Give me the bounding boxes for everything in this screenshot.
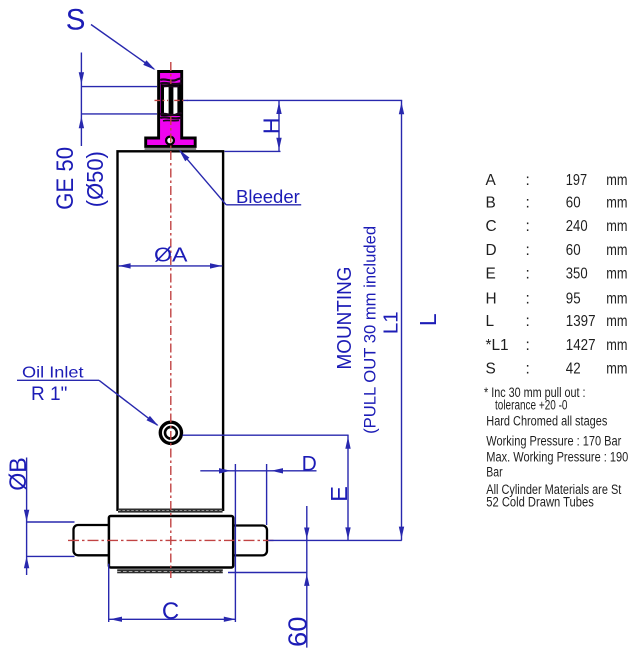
D dim line	[200, 470, 316, 472]
S dim line	[80, 53, 82, 147]
svg-text::: :	[526, 291, 530, 308]
cylinder tube body	[118, 151, 224, 510]
svg-text:S: S	[66, 4, 86, 37]
S ext line bottom	[81, 113, 157, 115]
svg-text:H: H	[258, 117, 284, 134]
hatch strip under flange	[145, 148, 197, 151]
blue labels	[5, 4, 441, 647]
E top ext line	[183, 434, 349, 436]
svg-text:H: H	[486, 291, 497, 308]
L1 dim arrows	[399, 102, 404, 114]
svg-text:mm: mm	[606, 361, 627, 378]
svg-text:E: E	[326, 486, 352, 502]
D/C shared ext line	[234, 464, 236, 622]
pin centerline ext to L1	[269, 539, 402, 541]
svg-text::: :	[526, 361, 530, 378]
svg-text:S: S	[486, 361, 496, 378]
svg-text:42: 42	[566, 361, 581, 378]
svg-text:mm: mm	[606, 291, 627, 308]
dia-B arrows	[24, 510, 29, 522]
gland strip at tube bottom	[118, 509, 223, 513]
svg-text:(Ø50): (Ø50)	[82, 151, 108, 207]
svg-text:mm: mm	[606, 313, 627, 330]
svg-text:1397: 1397	[566, 313, 596, 330]
svg-text::: :	[526, 337, 530, 354]
S leader arrowhead	[143, 60, 155, 70]
top wavy bearing band	[160, 79, 181, 81]
rod-end column + flange	[146, 72, 196, 147]
svg-text::: :	[526, 242, 530, 259]
C left ext line	[108, 564, 110, 622]
svg-text:ØA: ØA	[154, 244, 188, 267]
svg-text::: :	[526, 266, 530, 283]
base bottom hatch strip	[117, 569, 223, 573]
svg-text:60: 60	[566, 195, 581, 212]
dia-A dim line	[118, 265, 222, 267]
blue dimension lines	[17, 25, 402, 648]
C dim arrows	[110, 617, 122, 622]
svg-text::: :	[526, 172, 530, 189]
svg-text:mm: mm	[606, 242, 627, 259]
svg-text:L: L	[486, 313, 495, 330]
svg-text:L: L	[415, 313, 441, 326]
D dim arrows	[219, 468, 231, 473]
svg-text:D: D	[302, 452, 317, 475]
dia-A arrows	[119, 263, 131, 268]
svg-text:Working Pressure : 170 Bar: Working Pressure : 170 Bar	[486, 433, 621, 448]
base-bottom ext line	[228, 572, 307, 574]
svg-text:60: 60	[282, 617, 312, 648]
svg-text:mm: mm	[606, 195, 627, 212]
cylinder base block	[109, 516, 233, 568]
C dim line	[109, 618, 236, 620]
S ext line top	[81, 86, 157, 88]
svg-text:Hard Chromed all stages: Hard Chromed all stages	[486, 413, 607, 428]
E dim line	[347, 435, 349, 540]
D right ext line	[266, 464, 268, 525]
rod end assembly (magenta)	[145, 72, 197, 151]
svg-text:tolerance +20 -0: tolerance +20 -0	[495, 398, 568, 413]
vertical centerline (red dash-dot)	[170, 62, 172, 578]
S dim arrows	[79, 72, 84, 84]
svg-text:(PULL OUT 30 mm included: (PULL OUT 30 mm included	[361, 226, 379, 434]
Oil Inlet underline	[17, 379, 99, 381]
bore slot right	[173, 87, 177, 114]
Oil Inlet leader arrowhead	[147, 416, 159, 426]
E dim arrows	[345, 437, 350, 449]
svg-text:52 Cold Drawn Tubes: 52 Cold Drawn Tubes	[486, 495, 594, 510]
Oil Inlet leader	[99, 380, 158, 425]
bleeder port circle	[166, 137, 174, 145]
svg-text:Max. Working Pressure : 190: Max. Working Pressure : 190	[486, 450, 628, 465]
svg-text:A: A	[486, 172, 497, 189]
svg-text::: :	[526, 218, 530, 235]
svg-text:R 1": R 1"	[31, 384, 67, 405]
svg-text:C: C	[486, 218, 497, 235]
svg-text:C: C	[162, 598, 179, 625]
bearing bore block	[161, 85, 182, 117]
60 dim line	[306, 506, 308, 648]
svg-text:95: 95	[566, 291, 581, 308]
svg-text::: :	[526, 313, 530, 330]
right trunnion pin	[233, 526, 268, 556]
Bleeder leader	[180, 151, 226, 205]
svg-text:mm: mm	[606, 266, 627, 283]
bottom wavy bearing band	[160, 113, 181, 115]
svg-text:E: E	[486, 266, 496, 283]
svg-text:B: B	[486, 195, 496, 212]
S leader line	[91, 25, 154, 70]
svg-text:60: 60	[566, 242, 581, 259]
bearing-center extension line to L1	[184, 99, 403, 101]
svg-text:Oil Inlet: Oil Inlet	[22, 365, 84, 382]
svg-text:GE 50: GE 50	[52, 147, 79, 210]
bore slot left	[164, 87, 169, 114]
svg-text:MOUNTING: MOUNTING	[334, 267, 356, 370]
svg-text:mm: mm	[606, 218, 627, 235]
H dim arrows	[276, 102, 281, 114]
dimensions table	[486, 172, 628, 378]
svg-text::: :	[526, 195, 530, 212]
blue arrowheads	[24, 60, 404, 622]
svg-text:1427: 1427	[566, 337, 596, 354]
60 dim arrows	[304, 528, 309, 540]
dia-B dim line	[26, 458, 28, 576]
H dim line	[278, 100, 280, 151]
Bleeder underline	[226, 204, 301, 206]
svg-text:*L1: *L1	[486, 337, 509, 354]
svg-text:mm: mm	[606, 337, 627, 354]
svg-text:ØB: ØB	[5, 457, 32, 491]
left trunnion pin	[74, 525, 111, 555]
dia-B ext top	[27, 521, 75, 523]
L1 dim line	[401, 100, 403, 540]
svg-text:D: D	[486, 242, 497, 259]
oil inlet port	[160, 422, 181, 443]
Bleeder leader arrowhead	[179, 150, 190, 162]
svg-text:350: 350	[566, 266, 588, 283]
svg-text:Bleeder: Bleeder	[236, 186, 300, 207]
svg-text:240: 240	[566, 218, 588, 235]
svg-text:mm: mm	[606, 172, 627, 189]
dia-B ext bottom	[27, 555, 75, 557]
rod-end bearing centerline (red)	[155, 99, 169, 101]
svg-text:197: 197	[566, 172, 587, 189]
horizontal pin centerline (red dash-dot)	[68, 539, 274, 541]
notes block	[484, 385, 628, 510]
svg-text:L1: L1	[379, 311, 402, 334]
H bottom ext line	[225, 150, 281, 152]
svg-text:Bar: Bar	[486, 465, 503, 480]
